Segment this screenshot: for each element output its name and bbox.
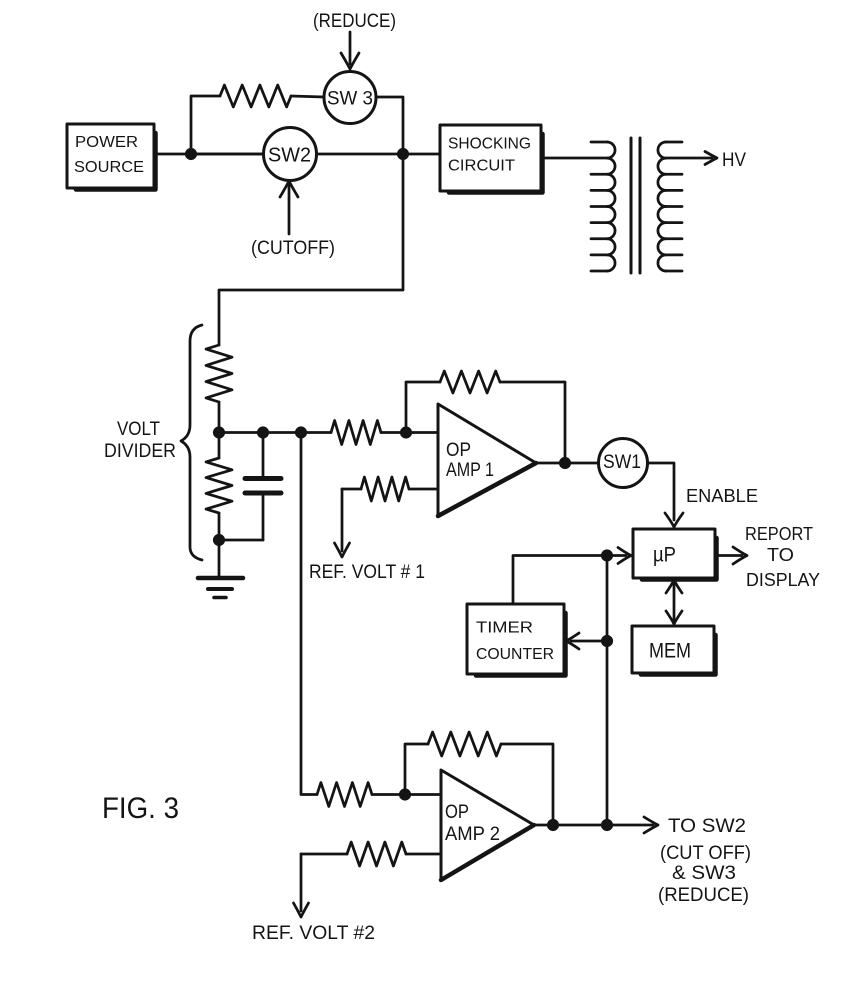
node C junction dot xyxy=(214,428,223,437)
svg-text:REF. VOLT # 1: REF. VOLT # 1 xyxy=(309,562,425,583)
svg-text:REPORT: REPORT xyxy=(745,524,813,544)
svg-text:DIVIDER: DIVIDER xyxy=(104,441,176,462)
wire bus down to op amp 2 output xyxy=(606,556,609,826)
wire resistor to SW3 xyxy=(291,96,324,97)
svg-text:HV: HV xyxy=(722,150,746,171)
arrow REF VOLT 1 xyxy=(335,489,350,557)
svg-text:SHOCKING: SHOCKING xyxy=(448,136,531,153)
svg-text:(REDUCE): (REDUCE) xyxy=(658,885,749,906)
svg-text:AMP 1: AMP 1 xyxy=(446,460,494,481)
arrow REDUCE into SW3 xyxy=(341,32,359,69)
svg-text:CIRCUIT: CIRCUIT xyxy=(448,158,515,175)
node dot timer-uP wire xyxy=(602,551,611,560)
wire node D to ground xyxy=(218,540,221,577)
feedback resistor R f1 xyxy=(406,371,565,463)
node dot bus at timer level xyxy=(602,636,611,645)
svg-text:(REDUCE): (REDUCE) xyxy=(313,11,396,32)
wire shocking circuit to transformer primary xyxy=(541,157,607,160)
shocking circuit box xyxy=(440,125,543,193)
double arrow uP to MEM xyxy=(666,580,682,624)
transformer primary winding xyxy=(591,142,615,271)
label (REDUCE) xyxy=(313,11,396,32)
resistor lower volt divider xyxy=(206,458,232,513)
arrow CUTOFF into SW2 xyxy=(280,181,298,234)
capacitor xyxy=(219,433,281,541)
microprocessor uP box xyxy=(633,529,717,580)
memory MEM box xyxy=(632,626,716,675)
svg-text:(CUTOFF): (CUTOFF) xyxy=(251,238,335,259)
svg-text:POWER: POWER xyxy=(75,134,138,151)
label REPORT TO DISPLAY xyxy=(745,524,820,590)
wire node B to shocking circuit xyxy=(403,153,440,156)
power source box xyxy=(67,124,156,190)
wire HV output with arrow xyxy=(666,152,717,165)
svg-text:SW1: SW1 xyxy=(603,452,641,473)
svg-text:TIMER: TIMER xyxy=(476,620,533,637)
switch SW2 xyxy=(264,128,317,181)
transformer core xyxy=(631,138,640,273)
label HV xyxy=(722,150,746,171)
label TO SW2 CUT OFF SW3 REDUCE xyxy=(658,816,751,906)
label FIG. 3 xyxy=(102,792,179,825)
wire lower resistor to node D xyxy=(218,513,221,540)
node E junction dot capacitor tap xyxy=(258,428,267,437)
node I junction dot feedback tap 2 xyxy=(400,790,409,799)
switch SW1 xyxy=(599,439,648,488)
wire SW1 to uP with arrow xyxy=(648,463,684,527)
svg-text:COUNTER: COUNTER xyxy=(476,646,554,663)
wire bus arrow into timer counter xyxy=(566,633,607,649)
svg-text:OP: OP xyxy=(445,802,469,823)
wire timer counter to uP with arrow xyxy=(513,548,631,605)
node H output dot op amp 1 xyxy=(560,458,569,467)
wire node B down-left to volt divider xyxy=(219,154,403,345)
feedback resistor R f2 xyxy=(405,732,553,825)
resistor R ref1 xyxy=(342,477,438,501)
wire op amp 1 output to SW1 xyxy=(536,462,599,465)
wire SW3 to node B xyxy=(376,97,403,154)
op-amp OP AMP 2 xyxy=(441,770,534,880)
wire power source to node A xyxy=(154,153,264,156)
wire op amp 2 output with arrow xyxy=(534,817,658,833)
wire upper resistor to node C xyxy=(218,402,221,433)
svg-text:& SW3: & SW3 xyxy=(672,863,736,884)
arrow REF VOLT 2 xyxy=(294,854,309,917)
node F junction dot op amp 2 branch xyxy=(296,428,305,437)
svg-text:SOURCE: SOURCE xyxy=(74,159,144,176)
transformer secondary winding xyxy=(658,142,682,271)
label REF. VOLT #2 xyxy=(252,923,375,944)
svg-text:DISPLAY: DISPLAY xyxy=(746,570,820,590)
op-amp OP AMP 1 xyxy=(438,404,536,516)
wire node C to op amp 1 input xyxy=(219,431,331,434)
resistor R in1 xyxy=(331,421,381,445)
svg-text:SW 3: SW 3 xyxy=(327,89,373,110)
svg-text:MEM: MEM xyxy=(649,640,691,663)
label (CUTOFF) xyxy=(251,238,335,259)
svg-text:ENABLE: ENABLE xyxy=(686,486,758,506)
label VOLT DIVIDER xyxy=(104,419,176,462)
label ENABLE xyxy=(686,486,758,506)
ground xyxy=(198,578,243,598)
svg-text:SW2: SW2 xyxy=(268,145,311,167)
wire node A up to resistor branch xyxy=(191,96,220,154)
svg-text:OP: OP xyxy=(446,440,471,461)
resistor R in2 xyxy=(317,783,372,807)
switch SW3 xyxy=(324,72,376,124)
node A junction dot xyxy=(186,149,195,158)
svg-text:(CUT OFF): (CUT OFF) xyxy=(660,843,751,864)
wire node C to lower resistor xyxy=(218,433,221,459)
resistor SW3 branch xyxy=(220,85,291,107)
svg-text:FIG. 3: FIG. 3 xyxy=(102,792,179,825)
arrow uP to display xyxy=(715,547,747,564)
wire R in1 to op amp 1 xyxy=(381,431,438,434)
wire SW2 to node B xyxy=(317,153,404,156)
node G junction dot feedback tap xyxy=(401,428,410,437)
resistor upper volt divider xyxy=(206,345,232,402)
svg-text:AMP 2: AMP 2 xyxy=(445,824,500,845)
wire R in2 to op amp 2 xyxy=(372,793,441,796)
svg-text:REF. VOLT #2: REF. VOLT #2 xyxy=(252,923,375,944)
svg-text:µP: µP xyxy=(653,544,676,567)
resistor R ref2 xyxy=(301,842,441,866)
node D junction dot xyxy=(214,535,223,544)
label REF. VOLT # 1 xyxy=(309,562,425,583)
long wire node F down to op amp 2 input xyxy=(301,433,317,795)
node J output dot op amp 2 xyxy=(548,820,557,829)
svg-text:VOLT: VOLT xyxy=(117,419,160,440)
svg-text:TO: TO xyxy=(767,545,794,565)
timer counter box xyxy=(467,604,566,676)
node K bus dot on output xyxy=(602,820,611,829)
brace volt divider xyxy=(181,325,202,560)
node B junction dot xyxy=(398,149,407,158)
wire node A to SW2 xyxy=(191,153,264,156)
svg-text:TO SW2: TO SW2 xyxy=(668,816,746,837)
